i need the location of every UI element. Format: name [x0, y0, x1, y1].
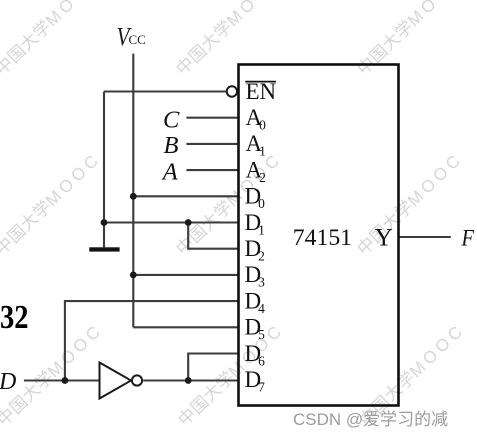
svg-text:D: D	[0, 369, 16, 395]
wire inverter output to D7	[143, 379, 238, 381]
svg-text:Y: Y	[375, 224, 393, 251]
svg-text:D0: D0	[245, 184, 266, 212]
svg-text:中国大学MOOC: 中国大学MOOC	[0, 149, 105, 259]
svg-text:CSDN @爱学习的减: CSDN @爱学习的减	[293, 410, 448, 429]
svg-text:中国大学MOOC: 中国大学MOOC	[175, 320, 288, 430]
wire D6 branch	[188, 354, 238, 381]
junction dot D7-D6	[185, 377, 192, 384]
overline of EN	[245, 81, 276, 83]
wire D2 branch	[188, 223, 238, 249]
svg-text:D7: D7	[245, 367, 266, 395]
junction dot VCC-D3	[130, 272, 137, 279]
svg-text:D1: D1	[245, 210, 265, 238]
svg-text:EN: EN	[246, 79, 277, 104]
svg-text:C: C	[163, 106, 180, 133]
inverter U2 bubble	[132, 375, 142, 385]
wire C to A0	[186, 117, 238, 119]
ground	[89, 247, 119, 251]
svg-text:32: 32	[0, 299, 29, 336]
svg-text:D5: D5	[245, 315, 266, 343]
wire VCC vertical	[132, 54, 134, 328]
power label VCC	[117, 23, 146, 52]
svg-text:A1: A1	[246, 131, 266, 159]
svg-text:A0: A0	[246, 105, 267, 133]
junction dot VCC-D0	[130, 193, 137, 200]
wire ground lead	[103, 92, 105, 248]
inverter bubble at EN pin	[227, 86, 237, 96]
wire A to A2	[186, 169, 238, 171]
junction dot ground-D1	[101, 219, 108, 226]
svg-text:F: F	[461, 225, 475, 250]
wire D input	[24, 379, 100, 381]
svg-text:D4: D4	[245, 288, 266, 316]
wire B to A1	[186, 143, 238, 145]
svg-text:B: B	[164, 132, 179, 159]
svg-text:A: A	[161, 158, 179, 185]
svg-text:中国大学MOOC: 中国大学MOOC	[354, 149, 467, 259]
svg-text:74151: 74151	[293, 225, 352, 251]
wire D5	[133, 326, 238, 328]
wire D1	[104, 221, 239, 223]
svg-text:中国大学MOOC: 中国大学MOOC	[0, 0, 105, 79]
svg-text:中国大学MOOC: 中国大学MOOC	[354, 0, 467, 79]
svg-text:中国大学MOOC: 中国大学MOOC	[173, 0, 286, 79]
svg-text:D2: D2	[245, 236, 265, 264]
wire D3	[133, 274, 238, 276]
inverter U2 triangle	[100, 363, 132, 399]
wire D0	[133, 195, 238, 197]
wire D4 branch	[65, 301, 239, 380]
svg-text:中国大学MOOC: 中国大学MOOC	[173, 149, 286, 259]
svg-text:CC: CC	[129, 32, 146, 47]
svg-text:D3: D3	[245, 262, 266, 290]
junction dot D1-D2	[185, 219, 192, 226]
junction dot D-D4	[62, 377, 69, 384]
wire EN horizontal	[104, 90, 226, 92]
wire Y output	[399, 236, 451, 238]
IC U1 74151 body	[239, 65, 399, 406]
